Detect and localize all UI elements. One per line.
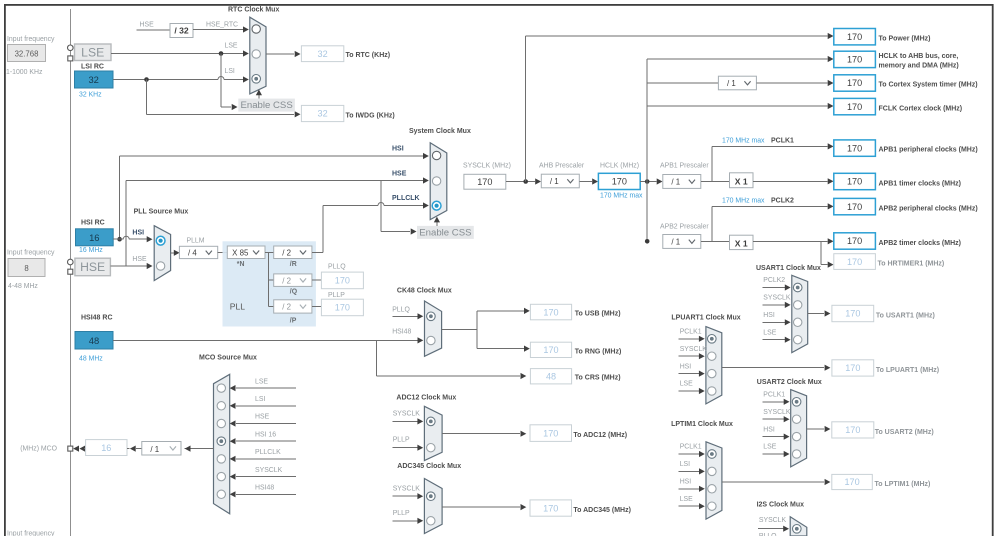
svg-text:APB2 Prescaler: APB2 Prescaler [660, 224, 709, 231]
svg-text:To ADC12 (MHz): To ADC12 (MHz) [573, 432, 627, 439]
svg-text:System Clock Mux: System Clock Mux [409, 128, 471, 135]
svg-text:Input frequency: Input frequency [7, 250, 55, 257]
svg-text:LPTIM1 Clock Mux: LPTIM1 Clock Mux [671, 421, 733, 428]
svg-text:RTC Clock Mux: RTC Clock Mux [228, 7, 279, 14]
svg-text:X 1: X 1 [735, 238, 748, 248]
svg-text:To RTC (KHz): To RTC (KHz) [346, 52, 391, 59]
svg-text:To LPTIM1 (MHz): To LPTIM1 (MHz) [875, 481, 931, 488]
svg-text:To USB (MHz): To USB (MHz) [575, 311, 621, 318]
svg-text:To Cortex System timer (MHz): To Cortex System timer (MHz) [879, 82, 978, 89]
svg-text:LSE: LSE [225, 43, 238, 50]
svg-text:HSI: HSI [132, 230, 144, 237]
svg-text:PLLP: PLLP [393, 437, 410, 444]
svg-text:CK48 Clock Mux: CK48 Clock Mux [397, 287, 452, 294]
svg-text:AHB Prescaler: AHB Prescaler [539, 163, 585, 170]
svg-text:170: 170 [845, 309, 860, 319]
svg-text:LSE: LSE [255, 378, 268, 385]
svg-text:HSI: HSI [392, 146, 404, 153]
svg-text:HSE: HSE [255, 414, 270, 421]
svg-text:48: 48 [546, 371, 556, 381]
svg-text:16: 16 [101, 443, 111, 453]
svg-text:PLL Source Mux: PLL Source Mux [134, 209, 189, 216]
svg-text:/ 1: / 1 [671, 178, 680, 187]
svg-text:8: 8 [24, 264, 28, 273]
svg-text:HSI: HSI [763, 426, 775, 433]
svg-text:16: 16 [89, 232, 99, 243]
svg-text:/R: /R [290, 261, 297, 268]
svg-text:ADC345 Clock Mux: ADC345 Clock Mux [397, 463, 461, 470]
svg-text:170 MHz max: 170 MHz max [722, 198, 765, 205]
svg-text:HSE: HSE [132, 256, 147, 263]
svg-text:170: 170 [612, 177, 627, 187]
svg-text:LPUART1 Clock Mux: LPUART1 Clock Mux [671, 315, 740, 322]
svg-text:LSE: LSE [680, 381, 693, 388]
svg-text:X 1: X 1 [735, 176, 748, 186]
svg-text:PLL: PLL [230, 301, 246, 311]
svg-text:170 MHz max: 170 MHz max [600, 193, 643, 200]
svg-text:To IWDG (KHz): To IWDG (KHz) [346, 113, 395, 120]
svg-text:PLLQ: PLLQ [328, 263, 346, 270]
svg-text:USART1 Clock Mux: USART1 Clock Mux [756, 265, 821, 272]
svg-text:/ 2: / 2 [282, 276, 291, 285]
svg-text:170: 170 [847, 55, 862, 65]
svg-text:32.768: 32.768 [15, 50, 39, 59]
svg-text:170: 170 [847, 236, 862, 246]
svg-text:PCLK2: PCLK2 [771, 198, 794, 205]
svg-text:PLLP: PLLP [328, 292, 345, 299]
svg-text:170: 170 [335, 303, 350, 313]
svg-text:HSE: HSE [392, 171, 407, 178]
svg-text:HSI48: HSI48 [392, 328, 411, 335]
svg-text:I2S Clock Mux: I2S Clock Mux [757, 502, 805, 509]
svg-text:HSI48: HSI48 [255, 485, 274, 492]
svg-text:170: 170 [543, 345, 558, 355]
svg-text:170: 170 [844, 477, 859, 487]
svg-text:PLLCLK: PLLCLK [392, 195, 420, 202]
svg-text:32 KHz: 32 KHz [79, 92, 102, 99]
svg-text:HSI: HSI [763, 312, 775, 319]
svg-text:/ 1: / 1 [671, 238, 680, 247]
svg-text:To LPUART1 (MHz): To LPUART1 (MHz) [876, 367, 939, 374]
svg-text:USART2 Clock Mux: USART2 Clock Mux [757, 379, 822, 386]
svg-text:SYSCLK (MHz): SYSCLK (MHz) [463, 163, 511, 170]
svg-text:LSI RC: LSI RC [81, 64, 104, 71]
svg-text:/ 2: / 2 [282, 248, 291, 257]
svg-text:SYSCLK: SYSCLK [763, 295, 791, 302]
svg-text:FCLK Cortex clock (MHz): FCLK Cortex clock (MHz) [879, 106, 963, 113]
svg-text:Enable CSS: Enable CSS [240, 100, 292, 111]
svg-text:LSE: LSE [763, 444, 776, 451]
svg-text:170: 170 [847, 78, 862, 88]
svg-text:SYSCLK: SYSCLK [763, 409, 791, 416]
svg-text:4-48 MHz: 4-48 MHz [8, 283, 38, 290]
svg-text:32: 32 [318, 49, 328, 59]
svg-text:/ 1: / 1 [727, 79, 736, 88]
svg-text:LSE: LSE [763, 329, 776, 336]
svg-text:HSI 16: HSI 16 [255, 431, 276, 438]
svg-text:LSI: LSI [680, 461, 690, 468]
svg-text:PCLK1: PCLK1 [680, 444, 702, 451]
svg-text:SYSCLK: SYSCLK [255, 467, 283, 474]
svg-text:170: 170 [847, 102, 862, 112]
svg-text:Enable CSS: Enable CSS [419, 227, 471, 238]
svg-text:170: 170 [543, 428, 558, 438]
svg-text:APB1 timer clocks (MHz): APB1 timer clocks (MHz) [879, 181, 961, 188]
svg-text:16 MHz: 16 MHz [79, 247, 103, 254]
svg-text:170: 170 [477, 177, 492, 187]
svg-text:HSE: HSE [80, 260, 105, 274]
svg-text:48 MHz: 48 MHz [79, 356, 103, 363]
svg-text:LSI: LSI [255, 396, 265, 403]
svg-text:PLLQ: PLLQ [392, 306, 410, 313]
svg-text:170: 170 [845, 425, 860, 435]
svg-text:LSI: LSI [225, 68, 235, 75]
svg-text:PLLM: PLLM [187, 238, 205, 245]
svg-text:170 MHz max: 170 MHz max [722, 138, 765, 145]
svg-text:APB1 peripheral clocks (MHz): APB1 peripheral clocks (MHz) [879, 147, 978, 154]
svg-text:APB2 timer clocks (MHz): APB2 timer clocks (MHz) [879, 240, 961, 247]
svg-text:170: 170 [847, 177, 862, 187]
svg-text:ADC12 Clock Mux: ADC12 Clock Mux [396, 395, 456, 402]
svg-text:PLLP: PLLP [393, 510, 410, 517]
svg-text:HSI48 RC: HSI48 RC [81, 315, 113, 322]
svg-text:To HRTIMER1 (MHz): To HRTIMER1 (MHz) [878, 261, 945, 268]
svg-text:170: 170 [543, 503, 558, 513]
svg-text:/ 1: / 1 [150, 445, 159, 454]
svg-text:Input frequency: Input frequency [7, 531, 55, 536]
svg-text:To USART2 (MHz): To USART2 (MHz) [875, 429, 934, 436]
svg-text:HSE: HSE [140, 22, 155, 29]
svg-text:SYSCLK: SYSCLK [393, 485, 421, 492]
svg-text:170: 170 [847, 32, 862, 42]
svg-text:32: 32 [88, 74, 98, 85]
svg-text:170: 170 [847, 202, 862, 212]
svg-text:To Power (MHz): To Power (MHz) [879, 36, 931, 43]
svg-text:170: 170 [847, 257, 862, 267]
svg-text:SYSCLK: SYSCLK [393, 411, 421, 418]
svg-text:memory and DMA (MHz): memory and DMA (MHz) [879, 63, 959, 70]
svg-text:/ 2: / 2 [282, 303, 291, 312]
svg-text:HSI: HSI [680, 363, 692, 370]
svg-text:APB1 Prescaler: APB1 Prescaler [660, 163, 709, 170]
svg-text:MCO Source Mux: MCO Source Mux [199, 355, 257, 362]
svg-text:/Q: /Q [290, 289, 298, 296]
svg-text:APB2 peripheral clocks (MHz): APB2 peripheral clocks (MHz) [879, 206, 978, 213]
svg-text:HCLK to AHB bus, core,: HCLK to AHB bus, core, [879, 53, 959, 60]
svg-text:To RNG (MHz): To RNG (MHz) [575, 349, 622, 356]
svg-text:HSE_RTC: HSE_RTC [206, 22, 238, 29]
svg-text:170: 170 [845, 363, 860, 373]
svg-text:PCLK1: PCLK1 [680, 329, 702, 336]
svg-text:To USART1 (MHz): To USART1 (MHz) [876, 312, 935, 319]
svg-text:SYSCLK: SYSCLK [759, 517, 787, 524]
svg-text:PCLK1: PCLK1 [771, 138, 794, 145]
svg-text:32: 32 [318, 109, 328, 119]
svg-text:170: 170 [847, 143, 862, 153]
svg-text:LSE: LSE [81, 45, 104, 59]
svg-text:/ 32: / 32 [174, 26, 189, 36]
svg-text:HCLK (MHz): HCLK (MHz) [600, 163, 639, 170]
svg-text:HSI: HSI [680, 479, 692, 486]
svg-text:X 85: X 85 [232, 248, 249, 257]
svg-text:1-1000 KHz: 1-1000 KHz [6, 69, 43, 76]
svg-text:PLLCLK: PLLCLK [255, 449, 281, 456]
svg-text:*N: *N [237, 261, 245, 268]
svg-text:Input frequency: Input frequency [7, 36, 55, 43]
svg-text:SYSCLK: SYSCLK [680, 346, 708, 353]
svg-text:PCLK1: PCLK1 [763, 392, 785, 399]
svg-text:170: 170 [543, 307, 558, 317]
svg-text:LSE: LSE [680, 496, 693, 503]
svg-text:/ 4: / 4 [188, 249, 197, 258]
svg-text:PCLK2: PCLK2 [763, 277, 785, 284]
svg-text:To ADC345 (MHz): To ADC345 (MHz) [573, 507, 631, 514]
svg-text:/ 1: / 1 [550, 177, 559, 186]
svg-text:170: 170 [335, 276, 350, 286]
svg-text:/P: /P [290, 318, 297, 325]
svg-text:48: 48 [89, 335, 99, 346]
svg-text:To CRS (MHz): To CRS (MHz) [575, 375, 621, 382]
svg-text:(MHz) MCO: (MHz) MCO [20, 446, 57, 453]
svg-text:HSI RC: HSI RC [81, 220, 105, 227]
